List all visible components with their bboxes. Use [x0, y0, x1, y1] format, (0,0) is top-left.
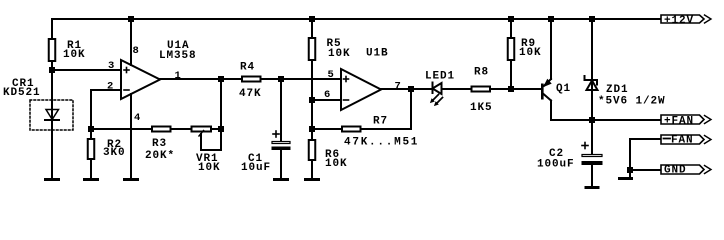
svg-text:10K: 10K: [325, 158, 348, 170]
svg-text:GND: GND: [664, 165, 687, 177]
connector flag GND: [661, 165, 711, 174]
pin 6 label: [324, 89, 330, 101]
svg-text:1K5: 1K5: [470, 102, 493, 114]
wire U1A output to U1B pin5: [159, 78, 341, 80]
svg-text:ZD1: ZD1: [606, 84, 629, 96]
pin 4 label: [134, 112, 140, 124]
node F (R5 / R6 / pin6): [309, 97, 315, 103]
node on rail at pin8: [128, 16, 134, 22]
capacitor C2: [582, 120, 603, 186]
wire collector to +FAN: [551, 119, 661, 121]
svg-text:20K*: 20K*: [145, 150, 175, 162]
label ZD1 value: [598, 84, 666, 108]
wire pin 6 stub: [312, 99, 341, 101]
svg-text:6: 6: [324, 89, 330, 101]
pin 1 label: [175, 70, 181, 82]
potentiometer VR1: [192, 127, 222, 151]
resistor R8: [472, 87, 491, 92]
label +12V: [664, 15, 694, 27]
node D (output / VR1): [218, 76, 224, 82]
svg-text:R7: R7: [373, 116, 388, 128]
pin 2 label: [107, 81, 113, 93]
ground (pin 4): [123, 178, 139, 181]
pin 3 label: [108, 60, 114, 72]
ground (CR1): [44, 178, 60, 181]
ground (R6): [304, 178, 320, 181]
svg-text:3: 3: [108, 60, 114, 72]
label -FAN: [664, 135, 694, 147]
resistor R1: [49, 39, 56, 70]
label LED1: [425, 71, 455, 83]
pin 7 label: [395, 81, 401, 93]
connector flag +FAN: [661, 115, 711, 124]
transistor Q1 (PNP): [541, 19, 552, 120]
LED LED1: [430, 83, 470, 107]
pin 8 label: [133, 45, 139, 57]
label VR1 value: [196, 153, 221, 174]
label R2 value: [103, 139, 126, 159]
connector flag +12V: [661, 15, 711, 23]
wire pin 2: [91, 90, 121, 129]
label R3 value: [145, 138, 175, 162]
zener ZD1: [585, 19, 598, 120]
label C1 value: [241, 153, 271, 174]
svg-text:LED1: LED1: [425, 71, 455, 83]
label R8 value: [470, 67, 493, 115]
svg-text:5: 5: [328, 69, 334, 81]
resistor R2: [88, 129, 95, 178]
op-amp U1A: [121, 60, 160, 99]
svg-text:47K...M51: 47K...M51: [344, 137, 419, 149]
label Q1: [556, 83, 571, 95]
label U1B: [366, 48, 389, 60]
svg-text:10K: 10K: [519, 47, 542, 59]
node I (R9 / base): [508, 86, 514, 92]
wire top +12V rail: [52, 19, 661, 38]
node on rail at Q1 emitter: [548, 16, 554, 22]
ground (-FAN/GND): [618, 177, 633, 180]
pin 5 label: [328, 69, 334, 81]
svg-text:100uF: 100uF: [537, 159, 575, 171]
node H (LED / R7): [408, 86, 414, 92]
node on rail at ZD1: [589, 16, 595, 22]
node on rail at R5: [309, 16, 315, 22]
svg-text:10uF: 10uF: [241, 162, 271, 174]
svg-text:R8: R8: [474, 67, 489, 79]
wire pin 7 output: [381, 88, 433, 90]
ground (C2): [585, 186, 600, 189]
svg-text:47K: 47K: [239, 88, 262, 100]
svg-text:1: 1: [175, 70, 181, 82]
label CR1: [3, 78, 41, 99]
resistor R5: [309, 19, 316, 139]
label R7 value: [344, 116, 419, 149]
label R4 value: [239, 62, 262, 101]
ground (C1): [273, 178, 289, 181]
connector flag -FAN: [661, 135, 711, 144]
svg-text:4: 4: [134, 112, 140, 124]
wire VR1 to output node: [220, 79, 222, 129]
resistor R7 (feedback): [312, 89, 411, 132]
node B (pin2 / R2 / R3 junction): [88, 126, 94, 132]
diode CR1 (sensor, dotted box): [30, 100, 73, 130]
label C2 value: [537, 148, 575, 171]
svg-text:*5V6 1/2W: *5V6 1/2W: [598, 96, 666, 108]
svg-text:LM358: LM358: [159, 50, 197, 62]
svg-text:R4: R4: [240, 62, 255, 74]
resistor R9: [508, 19, 515, 89]
node A (R1 / pin3 / CR1 junction): [49, 67, 55, 73]
wire pin 4 (V-) to ground: [130, 94, 132, 178]
label +FAN: [664, 116, 694, 128]
svg-text:8: 8: [133, 45, 139, 57]
svg-text:10K: 10K: [328, 48, 351, 60]
svg-text:FAN: FAN: [671, 135, 694, 147]
node on rail at R9: [508, 16, 514, 22]
svg-text:+12V: +12V: [664, 15, 694, 27]
label GND: [664, 165, 687, 177]
resistor R6: [309, 140, 316, 178]
resistor R4: [242, 77, 261, 82]
svg-text:10K: 10K: [63, 49, 86, 61]
svg-text:+FAN: +FAN: [664, 116, 694, 128]
node E (R4 / C1 / pin5): [278, 76, 284, 82]
label R9 value: [519, 38, 542, 59]
label U1A LM358: [159, 40, 197, 62]
label R6 value: [325, 149, 348, 170]
label R1 value: [63, 40, 86, 61]
node K (GND junction): [627, 167, 633, 173]
wire R8 to Q1 base: [491, 88, 541, 90]
wire CR1 branch: [51, 70, 53, 178]
wire pin3: [52, 69, 121, 71]
svg-text:U1B: U1B: [366, 48, 389, 60]
wire -FAN: [630, 139, 661, 177]
svg-text:3K0: 3K0: [103, 147, 126, 159]
wire pin 8 (V+): [130, 19, 132, 65]
node C (VR1 / R3 junction): [218, 126, 224, 132]
node J (ZD1 / C2 / +FAN): [589, 117, 595, 123]
capacitor C1: [272, 79, 291, 178]
svg-text:10K: 10K: [198, 162, 221, 174]
wire GND stub: [630, 169, 661, 171]
svg-text:R3: R3: [152, 138, 167, 150]
label R5 value: [327, 38, 351, 60]
ground (R2): [83, 178, 99, 181]
svg-text:Q1: Q1: [556, 83, 571, 95]
node G (R7 tap): [309, 126, 315, 132]
svg-text:KD521: KD521: [3, 87, 41, 99]
op-amp U1B: [341, 69, 381, 110]
resistor R3: [91, 127, 191, 132]
svg-text:7: 7: [395, 81, 401, 93]
